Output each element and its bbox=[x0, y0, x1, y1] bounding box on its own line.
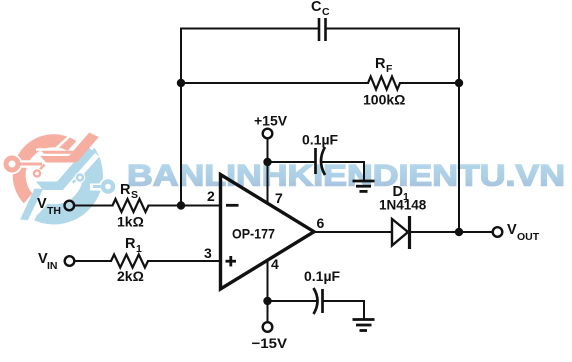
svg-text:3: 3 bbox=[204, 245, 212, 261]
svg-text:7: 7 bbox=[275, 190, 283, 206]
svg-text:−15V: −15V bbox=[252, 335, 288, 351]
svg-text:OUT: OUT bbox=[517, 231, 540, 243]
svg-text:R: R bbox=[375, 56, 386, 72]
junction node pin2 bbox=[177, 201, 185, 209]
wire top compensation loop left segment bbox=[181, 28, 319, 30]
svg-text:BANLINHKIENDIENTU.VN: BANLINHKIENDIENTU.VN bbox=[127, 160, 565, 193]
wire diode to VOUT terminal bbox=[410, 231, 493, 233]
svg-text:F: F bbox=[386, 63, 393, 75]
junction node output bbox=[455, 228, 463, 236]
wire R1 to op-amp pin 3 bbox=[148, 260, 219, 262]
wire VTH terminal to RS bbox=[75, 205, 113, 207]
svg-text:1: 1 bbox=[136, 243, 142, 255]
label RF bbox=[375, 56, 393, 75]
svg-text:2kΩ: 2kΩ bbox=[117, 268, 144, 284]
svg-text:C: C bbox=[311, 0, 322, 15]
wire RS to op-amp pin 2 bbox=[149, 205, 220, 207]
svg-text:0.1µF: 0.1µF bbox=[302, 132, 339, 148]
svg-text:S: S bbox=[131, 189, 138, 201]
svg-text:100kΩ: 100kΩ bbox=[363, 92, 405, 108]
terminal -15V bbox=[263, 322, 273, 332]
svg-text:R: R bbox=[120, 182, 131, 198]
svg-text:0.1µF: 0.1µF bbox=[304, 268, 341, 284]
svg-text:6: 6 bbox=[317, 215, 325, 231]
junction node +15V bbox=[263, 158, 271, 166]
wire bypass cap to top ground bbox=[321, 162, 364, 180]
svg-text:TH: TH bbox=[47, 205, 61, 217]
capacitor C_C bbox=[319, 18, 326, 41]
svg-text:V: V bbox=[507, 222, 517, 238]
op-amp plus input symbol bbox=[226, 256, 237, 266]
wire VIN terminal to R1 bbox=[75, 260, 111, 262]
wire feedback row right of RF bbox=[400, 82, 459, 84]
label CC bbox=[311, 0, 330, 18]
wire pin 4 to -15V terminal bbox=[267, 261, 269, 323]
op-amp minus input symbol bbox=[226, 204, 239, 207]
junction node feedback right bbox=[455, 79, 463, 87]
terminal VIN bbox=[65, 256, 75, 266]
wire left vertical from top loop to pin 2 node bbox=[180, 29, 182, 206]
resistor RS 1k bbox=[113, 199, 149, 212]
ground top bbox=[353, 181, 375, 191]
wire op-amp output to diode bbox=[314, 231, 392, 233]
label VIN bbox=[38, 251, 58, 272]
label RS bbox=[120, 182, 138, 201]
wire bottom bypass cap to bottom ground bbox=[323, 301, 365, 318]
diode D1 1N4148 bbox=[392, 216, 410, 249]
terminal +15V bbox=[263, 129, 273, 139]
op-amp U1 OP-177 triangle bbox=[221, 175, 315, 290]
svg-text:2: 2 bbox=[207, 188, 215, 204]
wire right vertical from top loop to output node bbox=[458, 29, 460, 233]
label R1 bbox=[125, 236, 142, 255]
junction node feedback left bbox=[177, 79, 185, 87]
svg-text:IN: IN bbox=[47, 260, 58, 272]
label VTH bbox=[37, 196, 61, 217]
wire +15V node to bypass cap bbox=[268, 161, 316, 163]
terminal VTH bbox=[65, 201, 75, 211]
bypass capacitor bottom 0.1uF bbox=[314, 288, 323, 314]
terminal VOUT bbox=[493, 227, 503, 237]
resistor RF 100k bbox=[368, 77, 400, 90]
wire -15V node to bottom bypass cap bbox=[268, 300, 317, 302]
wire top compensation loop right segment bbox=[326, 28, 460, 30]
resistor R1 2k bbox=[111, 255, 148, 268]
junction node -15V bbox=[263, 297, 271, 305]
svg-text:V: V bbox=[37, 196, 47, 212]
label D1 bbox=[393, 184, 410, 203]
svg-text:4: 4 bbox=[271, 256, 279, 272]
svg-text:1N4148: 1N4148 bbox=[379, 198, 427, 213]
svg-text:OP-177: OP-177 bbox=[232, 226, 275, 242]
svg-text:R: R bbox=[125, 236, 136, 252]
svg-text:1kΩ: 1kΩ bbox=[117, 214, 144, 230]
bypass capacitor top 0.1uF bbox=[316, 147, 326, 175]
svg-text:C: C bbox=[322, 6, 330, 18]
ground bottom bbox=[353, 320, 375, 331]
wire feedback row left of RF bbox=[181, 82, 368, 84]
label VOUT bbox=[507, 222, 540, 243]
wire +15V terminal to pin 7 bbox=[267, 139, 269, 204]
svg-text:+15V: +15V bbox=[254, 113, 288, 129]
